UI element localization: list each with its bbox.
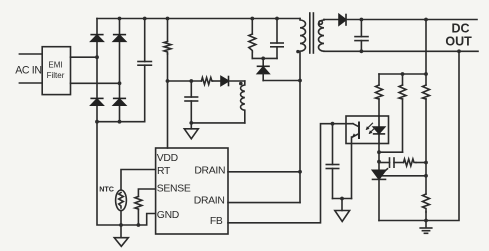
compensation network wire <box>379 162 390 164</box>
svg-text:DRAIN: DRAIN <box>194 166 225 177</box>
wire clamp to primary <box>263 80 300 82</box>
ground (opto) <box>335 199 350 222</box>
sense resistor R9 <box>135 196 142 225</box>
bridge diode D1 <box>91 35 103 42</box>
NTC thermistor RT1 <box>116 190 127 225</box>
node sense ground <box>119 223 123 227</box>
wire bridge bottom <box>97 121 145 123</box>
wire output positive rail <box>346 19 477 21</box>
wire snubber bottom <box>252 57 277 59</box>
secondary phase dot <box>319 21 323 25</box>
wire VDD node <box>168 80 202 82</box>
transformer secondary winding <box>319 20 325 52</box>
wire feedback divider top <box>425 20 427 75</box>
opto LED <box>373 116 384 144</box>
compensation capacitor C6 <box>390 158 395 167</box>
FB filter capacitor C5 <box>326 124 338 199</box>
svg-text:NTC: NTC <box>99 185 114 194</box>
svg-text:DC: DC <box>451 22 469 36</box>
compensation resistor R8 <box>394 159 426 166</box>
svg-text:FB: FB <box>210 216 223 227</box>
VDD diode D5 <box>221 77 229 86</box>
node VDD <box>166 79 170 83</box>
wire divider bus <box>379 73 426 75</box>
TL431 ref tick <box>380 169 388 176</box>
transformer primary winding <box>300 19 306 203</box>
wire output return rail <box>324 50 478 52</box>
wire opto collector to FB <box>228 124 353 223</box>
svg-text:SENSE: SENSE <box>157 184 191 195</box>
bulk capacitor C1 <box>138 19 151 122</box>
node FB cap <box>331 122 335 126</box>
snubber capacitor C3 <box>271 19 283 59</box>
wire emitter to cap <box>333 198 352 200</box>
ground (secondary earth) <box>420 221 432 234</box>
output diode D7 <box>339 15 346 26</box>
aux winding phase dot <box>239 82 243 86</box>
wire AC input top <box>19 53 42 55</box>
wire TL431 ref <box>381 175 426 177</box>
aux winding L1 <box>241 81 245 123</box>
wire RT pin <box>121 170 156 191</box>
transformer core <box>310 13 314 53</box>
wire SENSE pin <box>138 189 155 196</box>
snubber resistor R3 <box>249 19 256 59</box>
EMI filter block <box>42 47 70 95</box>
startup resistor R1 <box>164 19 171 149</box>
node divider bus <box>401 72 405 76</box>
wire DRAIN pin 1 <box>228 171 300 173</box>
svg-text:DRAIN: DRAIN <box>194 195 225 206</box>
wire to aux winding <box>229 80 245 82</box>
node snubber <box>261 57 265 61</box>
wire bridge negative return <box>97 122 156 225</box>
opto phototransistor <box>352 123 359 139</box>
bridge diode D4 <box>114 98 126 105</box>
svg-text:VDD: VDD <box>157 153 178 164</box>
bridge diode D2 <box>114 35 126 42</box>
wire EMI to bridge top <box>71 56 98 58</box>
primary phase dot <box>296 50 299 53</box>
wire bridge right leg <box>119 19 121 122</box>
node comp <box>424 161 428 165</box>
node cathode <box>377 150 381 154</box>
wire secondary top <box>324 19 339 21</box>
bias resistor R5 <box>399 74 406 152</box>
LED bias resistor R4 <box>376 74 383 116</box>
wire DRAIN pin 2 <box>228 202 300 204</box>
bridge diode D3 <box>91 98 103 105</box>
node bridge inputs <box>95 55 99 59</box>
controller IC U1 <box>156 148 228 234</box>
divider resistor R7 <box>423 194 430 221</box>
TL431 U3 <box>373 144 386 221</box>
svg-text:OUT: OUT <box>445 35 472 49</box>
wire bridge left leg <box>96 19 98 122</box>
ground (sense) <box>114 225 128 246</box>
wire aux winding return <box>191 122 245 124</box>
node bridge bottom <box>95 120 99 124</box>
VDD series resistor R2 <box>201 78 212 85</box>
node output <box>360 18 364 22</box>
wire to VDD diode <box>213 80 222 82</box>
wire EMI to bridge bottom <box>71 82 120 84</box>
svg-text:RT: RT <box>157 166 171 177</box>
wire primary top rail <box>97 18 300 20</box>
clamp diode D6 <box>258 58 270 80</box>
opto light arrows <box>366 123 376 134</box>
node drain <box>298 170 302 174</box>
output capacitor C4 <box>355 20 368 52</box>
wire opto emitter <box>351 137 353 199</box>
svg-text:EMI: EMI <box>48 61 62 70</box>
ground (VDD) <box>184 123 198 139</box>
wire R5 to cathode node <box>379 151 403 153</box>
optocoupler U2 <box>346 116 389 144</box>
wire output return drop <box>379 51 459 220</box>
wire AC input bottom <box>19 82 42 84</box>
node top rail junctions <box>118 17 122 21</box>
VDD capacitor C2 <box>185 81 198 123</box>
divider resistor R6 <box>423 74 430 194</box>
svg-text:GND: GND <box>157 210 179 221</box>
svg-text:Filter: Filter <box>47 71 65 80</box>
svg-text:AC IN: AC IN <box>15 64 42 76</box>
